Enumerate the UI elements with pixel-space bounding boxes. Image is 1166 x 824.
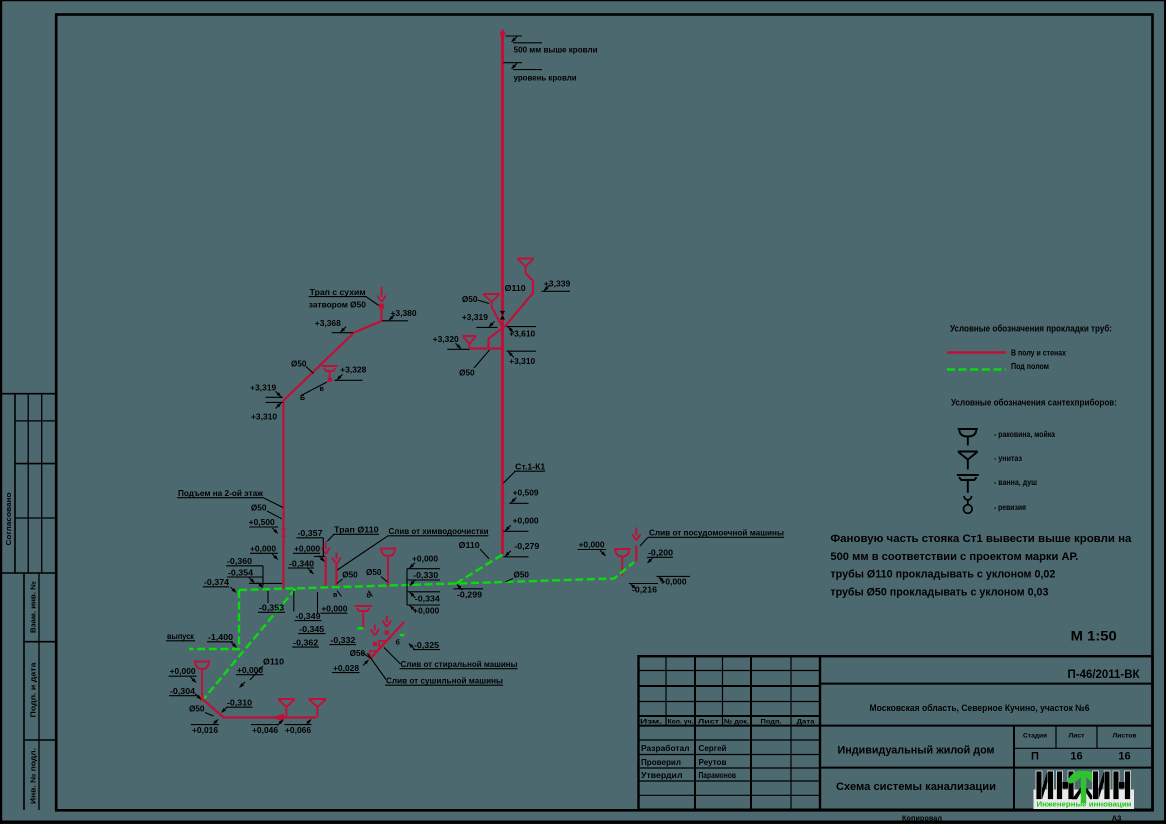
- svg-text:+0,000: +0,000: [170, 666, 196, 676]
- svg-text:-0,330: -0,330: [413, 570, 438, 580]
- label Ø110 outlet: [250, 657, 284, 681]
- svg-text:+3,310: +3,310: [251, 412, 277, 422]
- legend red line sample: [947, 351, 1006, 354]
- label Ø50 riser left: [462, 294, 489, 304]
- outlet assembly pipe: [200, 696, 316, 717]
- label drain dryer machine: [368, 654, 504, 686]
- svg-text:Изм.: Изм.: [640, 718, 662, 725]
- legend label sink: [994, 430, 1055, 439]
- legend symbol wc: [958, 452, 978, 470]
- elevation -0,353: [258, 591, 285, 613]
- svg-text:-0,354: -0,354: [228, 568, 253, 578]
- label Ø50 washer: [350, 648, 371, 658]
- svg-text:-0,325: -0,325: [414, 640, 439, 650]
- washer arrow 2: [383, 616, 392, 635]
- elevation +0,000 trap: [293, 544, 320, 554]
- svg-text:Слив от стиральной машины: Слив от стиральной машины: [401, 659, 518, 669]
- note line 1: [830, 533, 1131, 545]
- note line 3: [830, 569, 1055, 581]
- svg-text:Ø50: Ø50: [342, 570, 358, 580]
- green branch to riser: [456, 555, 502, 584]
- revision symbol red on riser: [500, 495, 505, 504]
- svg-text:+0,000: +0,000: [661, 577, 687, 587]
- svg-text:П-46/2011-ВК: П-46/2011-ВК: [1068, 669, 1141, 681]
- svg-text:-0,332: -0,332: [330, 635, 355, 645]
- svg-text:-0,360: -0,360: [227, 556, 252, 566]
- elevation +0,000 dw: [578, 540, 607, 556]
- svg-text:затвором Ø50: затвором Ø50: [309, 300, 366, 310]
- svg-text:Согласовано: Согласовано: [6, 493, 13, 546]
- elevation +3,319 right: [462, 312, 498, 327]
- svg-text:Ø50: Ø50: [189, 704, 205, 714]
- legend symbol revision: [964, 496, 973, 513]
- svg-text:+0,000: +0,000: [579, 540, 605, 550]
- svg-text:Фановую часть стояка Ст1 вывес: Фановую часть стояка Ст1 вывести выше кр…: [830, 533, 1131, 545]
- svg-text:+3,328: +3,328: [340, 365, 366, 375]
- svg-text:Утвердил: Утвердил: [641, 771, 683, 780]
- elevation +3,310 left: [251, 402, 283, 421]
- svg-text:-0,357: -0,357: [298, 528, 323, 538]
- svg-text:-0,334: -0,334: [415, 594, 440, 604]
- svg-text:Подъем на 2-ой этаж: Подъем на 2-ой этаж: [178, 488, 263, 498]
- elevation +0,016: [191, 720, 219, 736]
- footer A3: [1112, 814, 1122, 823]
- svg-text:Ст.1-К1: Ст.1-К1: [515, 462, 545, 472]
- elevation -1,400: [207, 632, 237, 648]
- footer Копировал: [902, 814, 942, 823]
- pipe funnel to riser: [504, 273, 533, 328]
- svg-text:-0,279: -0,279: [514, 541, 539, 551]
- svg-text:Московская область, Северное К: Московская область, Северное Кучино, уча…: [870, 703, 1090, 713]
- svg-text:уровень кровли: уровень кровли: [514, 73, 577, 83]
- scale М 1:50: [1071, 629, 1117, 644]
- funnel sink dishwasher: [614, 549, 631, 576]
- svg-text:+0,509: +0,509: [513, 488, 539, 498]
- funnel wc on offset: [463, 336, 477, 349]
- svg-text:Ø110: Ø110: [505, 283, 526, 293]
- elevation -0,310: [222, 698, 253, 713]
- outlet funnel wc 1: [278, 699, 295, 718]
- svg-text:Схема системы канализации: Схема системы канализации: [836, 781, 996, 793]
- elevation -0,200: [647, 548, 673, 564]
- svg-text:-0,200: -0,200: [648, 548, 673, 558]
- svg-text:Лист: Лист: [698, 718, 720, 725]
- svg-text:-0,345: -0,345: [299, 624, 324, 634]
- pipe funnel2 to riser: [492, 307, 503, 327]
- elevation +3,328: [334, 365, 366, 381]
- floor trap arrow 1: [321, 542, 330, 555]
- elevation +3,368: [315, 318, 353, 333]
- elevation 500mm above roof: [505, 36, 597, 55]
- label Ø50 offset: [459, 350, 489, 378]
- label Ø110 riser: [505, 283, 526, 293]
- note line 4: [830, 586, 1048, 598]
- svg-text:+3,380: +3,380: [391, 308, 417, 318]
- svg-text:+0,500: +0,500: [249, 517, 275, 527]
- svg-text:Взам. инв. №: Взам. инв. №: [30, 581, 38, 633]
- legend label bath: [994, 478, 1037, 487]
- elevation -0,279: [503, 541, 539, 557]
- outlet funnel wc 2: [309, 699, 327, 718]
- elevation +0,000 mid2: [407, 605, 440, 616]
- label rise to 2nd floor: [177, 488, 283, 508]
- elevation roof level: [503, 63, 576, 83]
- elevation -0,334: [407, 592, 440, 604]
- svg-text:+0,046: +0,046: [252, 725, 278, 735]
- svg-text:+3,368: +3,368: [315, 318, 341, 328]
- elevation +0,000 dw2: [657, 576, 691, 586]
- svg-text:+3,610: +3,610: [509, 329, 535, 339]
- elevation -0,340: [288, 559, 314, 575]
- svg-text:трубы Ø50 прокладывать с уклон: трубы Ø50 прокладывать с уклоном 0,03: [830, 586, 1048, 598]
- object address: [870, 703, 1090, 713]
- label B node: [300, 395, 305, 402]
- elevation -0,349: [294, 591, 322, 621]
- legend green dashed sample: [947, 368, 1006, 371]
- label b node washer: [396, 639, 401, 647]
- dimension ladder mid: [406, 569, 408, 605]
- elevation +0,028: [332, 660, 369, 673]
- svg-text:Листов: Листов: [1113, 733, 1137, 740]
- svg-text:выпуск: выпуск: [167, 631, 195, 641]
- elevation -0,354: [227, 566, 282, 588]
- svg-text:+0,000: +0,000: [250, 544, 276, 554]
- label Подп. и дата: [31, 662, 38, 717]
- doc number П-46/2011-ВК: [1068, 669, 1141, 681]
- svg-text:-0,340: -0,340: [289, 559, 314, 569]
- svg-text:-0,362: -0,362: [293, 638, 318, 648]
- funnel bath on left branch: [322, 366, 338, 382]
- svg-text:+0,000: +0,000: [413, 606, 439, 616]
- svg-text:Ø50: Ø50: [514, 570, 530, 580]
- svg-text:Слив от посудомоечной машины: Слив от посудомоечной машины: [649, 528, 784, 538]
- svg-text:М 1:50: М 1:50: [1071, 629, 1117, 644]
- left margin tall boxes: [24, 573, 57, 810]
- label b node trap: [367, 591, 373, 600]
- label Ø50 trap1: [337, 570, 358, 584]
- svg-text:Инженерные инновации: Инженерные инновации: [1037, 800, 1132, 809]
- svg-text:Проверил: Проверил: [641, 758, 681, 767]
- svg-text:Ø50: Ø50: [366, 567, 382, 577]
- svg-text:б: б: [367, 592, 372, 600]
- elevation -0,299: [454, 585, 484, 600]
- svg-text:+0,016: +0,016: [192, 725, 218, 735]
- svg-text:П: П: [1031, 751, 1039, 763]
- elevation +0,509: [509, 488, 539, 504]
- washer slash triangle 2: [370, 651, 377, 658]
- svg-text:Стадия: Стадия: [1023, 733, 1047, 740]
- svg-text:+3,319: +3,319: [462, 312, 488, 322]
- label Взам. инв. №: [30, 581, 38, 633]
- trap dry seal arrow: [377, 287, 386, 308]
- svg-text:Б: Б: [300, 395, 305, 402]
- label drain washing machine: [384, 648, 518, 670]
- svg-text:Лист: Лист: [1069, 733, 1086, 740]
- svg-text:В полу и стенах: В полу и стенах: [1011, 349, 1066, 358]
- funnel wc at riser top right: [517, 259, 534, 274]
- green dash at washer slash: [400, 634, 405, 636]
- svg-text:Трап с сухим: Трап с сухим: [310, 287, 366, 297]
- elevation -0,330: [407, 570, 440, 585]
- green dash at washer funnel: [358, 627, 364, 629]
- elevation +0,000 left: [250, 544, 278, 560]
- svg-text:трубы Ø110 прокладывать с укло: трубы Ø110 прокладывать с уклоном 0,02: [830, 569, 1055, 581]
- elevation +0,000 riser: [503, 516, 539, 532]
- elevation -0,345: [298, 624, 325, 634]
- elevation -0,360: [226, 556, 263, 566]
- svg-text:Разработал: Разработал: [641, 744, 690, 753]
- svg-text:Индивидуальный жилой дом: Индивидуальный жилой дом: [838, 745, 995, 757]
- svg-text:Ø50: Ø50: [462, 294, 478, 304]
- vent stack top arrow: [500, 30, 504, 36]
- svg-text:- ванна, душ: - ванна, душ: [994, 478, 1037, 487]
- svg-text:+0,000: +0,000: [513, 516, 539, 526]
- left margin approval grid: [2, 394, 57, 573]
- title header row: [640, 718, 815, 725]
- svg-text:Копировал: Копировал: [902, 814, 942, 823]
- funnel wc left of riser: [483, 294, 500, 307]
- riser offset branch: [469, 328, 502, 349]
- label Ø50 trap2: [366, 567, 388, 582]
- svg-text:- унитаз: - унитаз: [994, 454, 1022, 463]
- svg-text:Ø50: Ø50: [291, 359, 307, 369]
- svg-text:№ док.: № док.: [724, 718, 749, 725]
- label Ø50 rise: [251, 503, 282, 519]
- svg-text:-0,310: -0,310: [227, 698, 252, 708]
- elevation +3,310 right: [507, 351, 537, 366]
- washer arrow 1: [371, 625, 380, 647]
- svg-text:500 мм выше кровли: 500 мм выше кровли: [514, 45, 598, 55]
- svg-text:Слив от химводоочистки: Слив от химводоочистки: [389, 526, 489, 536]
- svg-text:Под полом: Под полом: [1011, 362, 1049, 371]
- elevation +0,500: [249, 517, 278, 533]
- revision symbol on left pipe: [281, 529, 286, 538]
- elevation +3,380: [382, 308, 417, 321]
- svg-text:- раковина, мойка: - раковина, мойка: [994, 430, 1055, 439]
- svg-text:-0,304: -0,304: [170, 686, 195, 696]
- revision symbol black on riser: [500, 311, 505, 320]
- svg-text:+3,320: +3,320: [433, 334, 459, 344]
- legend label В полу и стенах: [1011, 349, 1066, 358]
- trap 2 pipe: [335, 565, 337, 589]
- svg-text:+3,319: +3,319: [250, 383, 276, 393]
- washer slash pipe: [371, 622, 404, 658]
- svg-text:+0,066: +0,066: [285, 725, 311, 735]
- label drain chemical treatment: [337, 526, 488, 570]
- label outlet: [166, 631, 195, 641]
- svg-text:-0,353: -0,353: [259, 603, 284, 613]
- svg-text:Сергей: Сергей: [699, 744, 727, 753]
- svg-text:Слив от сушильной машины: Слив от сушильной машины: [386, 676, 503, 686]
- svg-text:Реутов: Реутов: [699, 758, 727, 767]
- elevation +3,339: [542, 279, 571, 292]
- washer slash triangle 1: [379, 641, 386, 648]
- legend label Под полом: [1011, 362, 1049, 371]
- trap 1 pipe: [325, 557, 327, 589]
- svg-text:+0,000: +0,000: [321, 604, 347, 614]
- elevation +0,066: [285, 720, 312, 736]
- label trap Ø110: [327, 525, 379, 542]
- svg-text:Подп.: Подп.: [761, 718, 782, 725]
- svg-text:в: в: [333, 592, 338, 599]
- elevation +0,046: [251, 720, 283, 735]
- left branch pipe: [284, 308, 382, 589]
- svg-text:Кол. уч.: Кол. уч.: [668, 718, 694, 725]
- green diagonal to outlet: [204, 589, 296, 699]
- legend symbol sink: [958, 429, 978, 446]
- elevation -0,362: [292, 638, 319, 648]
- stage header: [1023, 733, 1137, 740]
- floor trap arrow 2: [332, 553, 341, 565]
- green main underfloor pipe: [239, 562, 634, 590]
- label Инв. № подл.: [30, 748, 38, 804]
- dishwasher pipe: [635, 546, 637, 562]
- label drain dishwasher: [640, 528, 784, 547]
- svg-text:- ревизия: - ревизия: [994, 503, 1026, 512]
- elevation -0,332: [329, 635, 356, 645]
- svg-text:Ø110: Ø110: [459, 540, 480, 550]
- logo ИНЖИН: [1034, 768, 1135, 809]
- elevation +0,000 diag: [236, 665, 264, 688]
- elevation +0,000 mid: [407, 554, 440, 569]
- outlet funnel sink: [194, 662, 211, 699]
- svg-text:Условные обозначения прокладки: Условные обозначения прокладки труб:: [950, 324, 1112, 334]
- svg-text:Парамонов: Парамонов: [699, 771, 737, 780]
- elevation +0,000 washer: [318, 592, 348, 614]
- svg-text:Ø50: Ø50: [459, 368, 475, 378]
- label Ø50 mid right: [506, 570, 530, 582]
- dishwasher arrow: [632, 528, 641, 541]
- title block grid: [639, 656, 1153, 810]
- sheet name: [836, 781, 996, 793]
- outlet flow arrow: [272, 714, 285, 722]
- legend label wc: [994, 454, 1022, 463]
- svg-text:+0,000: +0,000: [412, 554, 438, 564]
- svg-text:Подп. и дата: Подп. и дата: [31, 662, 38, 717]
- svg-text:500 мм в соответствии с проект: 500 мм в соответствии с проектом марки А…: [830, 551, 1078, 563]
- svg-text:Условные обозначения сантехпри: Условные обозначения сантехприборов:: [951, 398, 1117, 408]
- svg-text:16: 16: [1118, 751, 1130, 763]
- svg-text:+3,310: +3,310: [509, 356, 535, 366]
- label St.1-K1: [504, 462, 546, 484]
- label Ø110 mid: [459, 540, 489, 559]
- label Согласовано: [6, 493, 13, 546]
- funnel sink mid: [380, 549, 397, 586]
- svg-text:Трап Ø110: Трап Ø110: [334, 525, 379, 535]
- svg-text:-0,374: -0,374: [204, 577, 229, 587]
- washer funnel bath: [355, 606, 372, 629]
- svg-text:-1,400: -1,400: [208, 632, 233, 642]
- svg-text:16: 16: [1070, 751, 1082, 763]
- svg-text:в: в: [320, 386, 325, 393]
- elevation -0,325: [409, 640, 440, 650]
- label Ø50 left: [291, 359, 314, 374]
- label v node trap: [333, 591, 342, 600]
- label Ø50 outlet: [189, 704, 214, 717]
- svg-text:+0,000: +0,000: [294, 544, 320, 554]
- note line 2: [830, 551, 1078, 563]
- elevation +3,320: [433, 334, 470, 349]
- label trap dry seal: [309, 287, 379, 310]
- legend symbol bath: [957, 475, 979, 493]
- elevation -0,357: [297, 528, 326, 562]
- stage values: [1031, 751, 1131, 763]
- object name: [838, 745, 995, 757]
- svg-text:А3: А3: [1112, 814, 1122, 823]
- legend fixtures header: [951, 398, 1117, 408]
- legend label revision: [994, 503, 1026, 512]
- svg-text:Ø50: Ø50: [251, 503, 267, 513]
- legend pipes header: [950, 324, 1112, 334]
- svg-text:-0,299: -0,299: [457, 590, 482, 600]
- elevation +0,000 outlet funnel: [169, 666, 197, 683]
- wire leader funnel to pipe: [301, 382, 327, 396]
- svg-text:Инв. № подл.: Инв. № подл.: [30, 748, 38, 804]
- elevation +3,319 left: [250, 383, 283, 398]
- elevation +3,610: [507, 327, 537, 339]
- label v node: [320, 386, 325, 393]
- svg-text:Ø110: Ø110: [263, 657, 284, 667]
- elevation -0,304: [169, 686, 201, 699]
- svg-text:+0,028: +0,028: [333, 663, 359, 673]
- title signature rows: [641, 744, 736, 780]
- elevation -0,216: [629, 584, 658, 595]
- svg-text:б: б: [396, 639, 401, 647]
- elevation -0,374: [203, 577, 236, 593]
- riser St1-K1 vertical pipe: [501, 31, 504, 554]
- green outlet leg: [189, 590, 239, 649]
- svg-text:Дата: Дата: [797, 718, 815, 725]
